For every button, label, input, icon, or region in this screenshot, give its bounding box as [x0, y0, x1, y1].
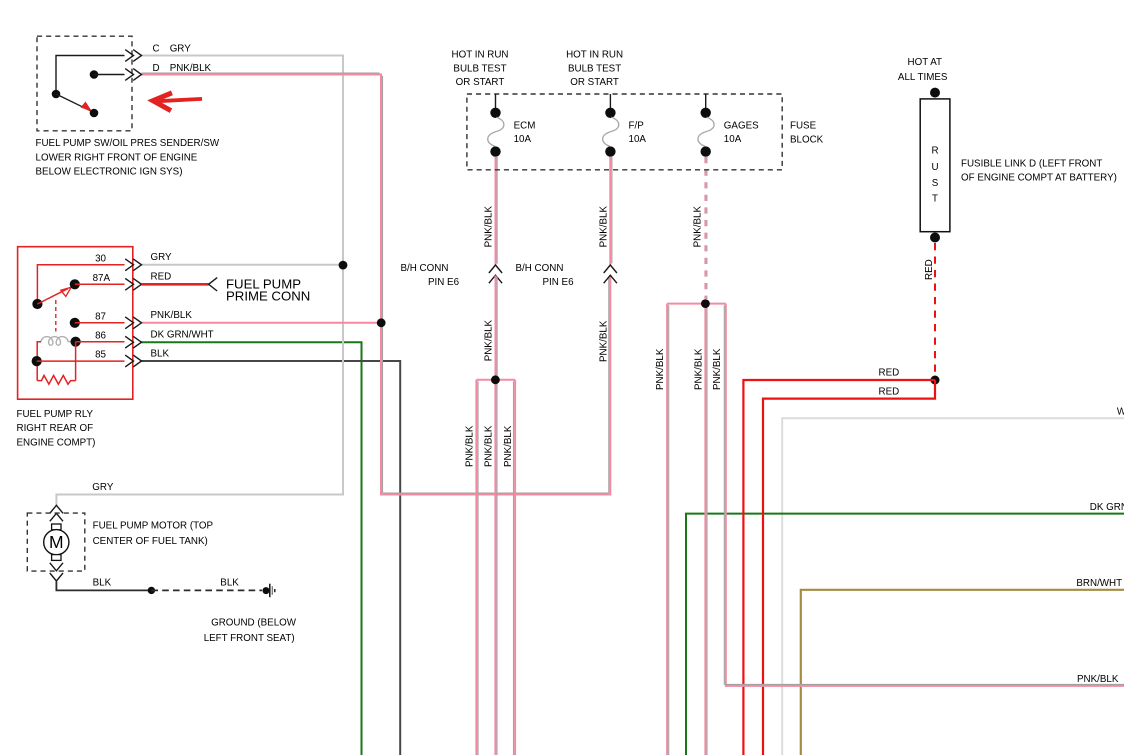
motor brush bottom [52, 555, 61, 561]
node dot relay 87 [70, 318, 80, 328]
svg-text:10A: 10A [724, 134, 742, 145]
svg-text:RIGHT REAR OF: RIGHT REAR OF [17, 423, 94, 434]
fuse ECM 10A [495, 94, 497, 108]
relay resistor [37, 375, 75, 384]
svg-text:LEFT FRONT SEAT): LEFT FRONT SEAT) [204, 633, 295, 644]
wire RED to prime connector [142, 283, 209, 286]
wire DK GRN/WHT from relay pin 86 (down at x=361.5) [142, 342, 362, 755]
svg-text:PNK/BLK: PNK/BLK [170, 63, 212, 74]
svg-text:PNK/BLK: PNK/BLK [693, 206, 704, 248]
wire GRY from switch pin C (right, down at x=343, left to motor) [56, 56, 343, 507]
svg-text:RED: RED [879, 387, 900, 398]
svg-text:PNK/BLK: PNK/BLK [503, 425, 514, 467]
svg-text:BLK: BLK [151, 348, 170, 359]
svg-text:PNK/BLK: PNK/BLK [484, 319, 495, 361]
relay pin chevrons 86 [125, 336, 133, 348]
svg-text:PNK/BLK: PNK/BLK [694, 348, 705, 390]
svg-text:CENTER OF FUEL TANK): CENTER OF FUEL TANK) [93, 536, 208, 547]
red arrowhead on switch blade [81, 102, 93, 112]
svg-text:ENGINE COMPT): ENGINE COMPT) [17, 438, 96, 449]
svg-text:BULB TEST: BULB TEST [453, 63, 506, 74]
svg-text:ALL TIMES: ALL TIMES [898, 72, 948, 83]
relay pin 87A internal wire [75, 283, 125, 285]
svg-text:D: D [153, 63, 160, 74]
svg-text:GROUND (BELOW: GROUND (BELOW [211, 617, 297, 628]
fusible link D rectangle (RUST) [920, 99, 950, 232]
wire WHT (horizontal from right edge, down at x=781.5) [782, 418, 1124, 755]
svg-text:87: 87 [95, 311, 106, 322]
svg-text:S: S [932, 178, 939, 189]
relay resistor right leg [75, 342, 77, 381]
fuse block dashed box [467, 94, 782, 170]
svg-text:RED: RED [879, 368, 900, 379]
wire PNK/BLK dashed from GAGES fuse [704, 157, 706, 299]
relay coil-resistor left leg [37, 342, 41, 381]
relay blade open arrowhead [61, 287, 71, 296]
svg-text:BRN/WHT: BRN/WHT [1076, 578, 1122, 589]
wire PNK/BLK 3-branch bar and verticals [476, 379, 515, 381]
wire GRY from relay pin 30 [142, 264, 344, 266]
wire PNK/BLK from switch pin D (right, down at x=381, right at y=494.5, up to B/H conn) [142, 75, 611, 495]
svg-text:FUEL PUMP MOTOR (TOP: FUEL PUMP MOTOR (TOP [93, 520, 214, 531]
svg-text:PNK/BLK: PNK/BLK [464, 425, 475, 467]
svg-text:LOWER RIGHT FRONT OF ENGINE: LOWER RIGHT FRONT OF ENGINE [36, 152, 198, 163]
junction dot GAGES [701, 299, 710, 308]
relay switch blade [37, 289, 68, 304]
svg-text:PNK/BLK: PNK/BLK [655, 348, 666, 390]
svg-text:U: U [931, 162, 938, 173]
wire BRN/WHT (right edge horizontal, down at x=800.8) [801, 590, 1124, 755]
svg-text:BULB TEST: BULB TEST [568, 63, 621, 74]
svg-text:85: 85 [95, 350, 106, 361]
svg-text:C: C [153, 43, 160, 54]
node dot relay 86 [71, 337, 81, 347]
svg-text:87A: 87A [93, 273, 111, 284]
svg-text:PNK/BLK: PNK/BLK [712, 348, 723, 390]
fuel pump switch / oil pressure sender dashed box [37, 36, 132, 131]
fuse GAGES 10A [705, 94, 707, 108]
svg-text:F/P: F/P [629, 120, 645, 131]
svg-text:RED: RED [924, 259, 935, 280]
node dot switch NO contact [90, 109, 99, 118]
node dot switch pin D contact [90, 70, 99, 79]
node dot below fusible link [930, 233, 940, 243]
svg-text:PRIME CONN: PRIME CONN [226, 289, 310, 304]
svg-text:FUSE: FUSE [790, 121, 817, 132]
svg-text:BLOCK: BLOCK [790, 134, 824, 145]
fuel pump motor dashed box [27, 513, 85, 571]
svg-text:FUEL PUMP SW/OIL PRES SENDER/S: FUEL PUMP SW/OIL PRES SENDER/SW [36, 138, 220, 149]
svg-text:GRY: GRY [151, 252, 173, 263]
svg-text:10A: 10A [629, 134, 647, 145]
wire BLK dashed to ground [151, 589, 262, 591]
node dot switch common [52, 90, 61, 99]
svg-text:HOT AT: HOT AT [908, 57, 942, 68]
svg-text:WHT: WHT [1117, 406, 1124, 417]
wire RED 1 (horizontal y=380, down at x=743.4) [743, 380, 935, 755]
junction dot GRY [339, 261, 348, 270]
svg-text:T: T [932, 194, 938, 205]
svg-text:GRY: GRY [92, 482, 114, 493]
svg-text:GAGES: GAGES [724, 120, 759, 131]
svg-text:86: 86 [95, 331, 106, 342]
svg-text:OR START: OR START [456, 77, 505, 88]
svg-text:R: R [931, 145, 938, 156]
wire switch pin C internal [56, 56, 125, 95]
junction dot 3-branch [491, 375, 500, 384]
svg-text:HOT IN RUN: HOT IN RUN [452, 50, 509, 61]
node dot relay 87A [70, 279, 80, 289]
wire switch pin D internal [94, 74, 125, 76]
wire BLK from motor [56, 582, 151, 591]
connector chevrons below motor [50, 563, 63, 571]
svg-text:PNK/BLK: PNK/BLK [484, 206, 495, 248]
svg-text:BLK: BLK [220, 578, 239, 589]
motor circle M [44, 530, 69, 555]
node dot above fusible link [930, 88, 940, 98]
node dot relay 85 [32, 356, 42, 366]
relay coil [41, 337, 71, 346]
wire PNK/BLK ECM below connector [495, 276, 497, 380]
node dot relay common [32, 299, 42, 309]
connector chevrons pin C [125, 50, 133, 62]
relay pin chevrons 30 [125, 259, 133, 271]
ground symbol [263, 587, 270, 594]
relay pin chevrons 85 [125, 355, 133, 367]
svg-text:OR START: OR START [570, 77, 619, 88]
junction dot PNK/BLK at x=381.8 [377, 318, 386, 327]
svg-text:HOT IN RUN: HOT IN RUN [566, 50, 623, 61]
svg-text:PNK/BLK: PNK/BLK [598, 206, 609, 248]
connector B/H CONN PIN E6 (F/P wire) chevrons [604, 265, 617, 273]
svg-text:FUEL PUMP RLY: FUEL PUMP RLY [17, 409, 94, 420]
svg-text:PNK/BLK: PNK/BLK [483, 425, 494, 467]
wire RED dashed from fusible link down [934, 243, 936, 376]
relay pin chevrons 87 [125, 317, 133, 329]
svg-text:30: 30 [95, 253, 106, 264]
svg-text:FUSIBLE LINK D (LEFT FRONT: FUSIBLE LINK D (LEFT FRONT [961, 158, 1102, 169]
svg-text:BLK: BLK [93, 578, 112, 589]
wire PNK/BLK from F/P fuse down to B/H conn [609, 157, 611, 265]
svg-text:DK GRN/WHT: DK GRN/WHT [1090, 502, 1124, 513]
svg-text:PNK/BLK: PNK/BLK [598, 320, 609, 362]
relay pin 85 internal wire [37, 360, 125, 362]
fuel pump relay box [18, 247, 133, 400]
junction dot BLK [148, 587, 155, 594]
connector chevrons above motor [50, 505, 63, 513]
wire DK GRN (right edge horizontal, down at x=686) [686, 514, 1124, 755]
switch blade to NO contact [56, 94, 91, 111]
svg-text:BELOW ELECTRONIC IGN SYS): BELOW ELECTRONIC IGN SYS) [36, 167, 183, 178]
svg-text:OF ENGINE COMPT AT BATTERY): OF ENGINE COMPT AT BATTERY) [961, 173, 1117, 184]
svg-text:RED: RED [151, 272, 172, 283]
junction dot RED [931, 376, 940, 385]
svg-text:PIN E6: PIN E6 [543, 277, 575, 288]
svg-text:B/H CONN: B/H CONN [401, 263, 449, 274]
relay pin 86 internal wire [76, 341, 125, 343]
wire PNK/BLK GAGES bar and 3 branches [667, 303, 726, 305]
svg-text:PIN E6: PIN E6 [428, 277, 460, 288]
relay pin 87 internal wire [75, 322, 125, 324]
relay dashed actuation line [55, 300, 57, 332]
svg-text:GRY: GRY [170, 43, 192, 54]
connector chevrons pin D [125, 69, 133, 81]
wire RED 2 (drop from junction, horizontal y=398.6, down at x=763) [763, 380, 935, 755]
svg-text:DK GRN/WHT: DK GRN/WHT [151, 330, 214, 341]
red arrow pointing at switch [158, 99, 202, 101]
svg-text:PNK/BLK: PNK/BLK [151, 310, 193, 321]
connector B/H CONN PIN E6 (ECM wire) chevrons [489, 265, 502, 273]
fuse F/P 10A [609, 94, 611, 108]
svg-text:PNK/BLK: PNK/BLK [1077, 674, 1119, 685]
relay pin chevrons 87A [125, 278, 133, 290]
svg-text:B/H CONN: B/H CONN [516, 263, 564, 274]
prime connector half chevron [209, 278, 218, 291]
wire PNK/BLK from ECM fuse down through B/H conn to 3-branch junction [495, 157, 497, 265]
wire PNK/BLK from relay pin 87 [142, 322, 382, 324]
motor brush top [52, 524, 61, 530]
wire PNK/BLK to right edge (y=685.9) [726, 304, 1124, 686]
svg-text:ECM: ECM [514, 120, 536, 131]
wire BLK from relay pin 85 (down at x=400.2) [142, 361, 401, 755]
relay pin 30 internal wire [37, 265, 124, 304]
svg-text:10A: 10A [514, 134, 532, 145]
svg-text:M: M [49, 532, 64, 552]
